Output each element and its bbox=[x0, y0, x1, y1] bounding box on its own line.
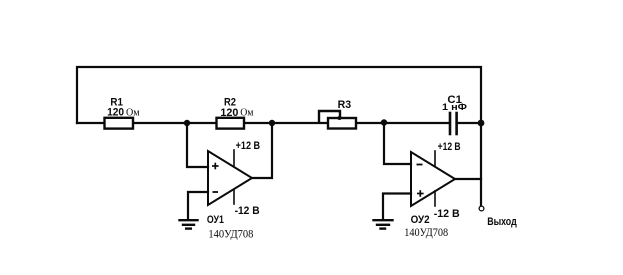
output terminal circle bbox=[479, 206, 484, 211]
U1 plus sign bbox=[212, 163, 219, 170]
wire top feedback bbox=[77, 67, 481, 123]
resistor R1 bbox=[105, 118, 134, 129]
R3 wiper dot bbox=[338, 116, 342, 120]
potentiometer R3 bbox=[328, 118, 356, 129]
U1 minus sign bbox=[213, 191, 219, 193]
node D junction dot bbox=[478, 120, 485, 127]
wire U2 output bbox=[455, 178, 481, 180]
svg-text:-12 В: -12 В bbox=[434, 208, 460, 220]
U2 plus sign bbox=[417, 190, 424, 197]
wire output down to terminal bbox=[480, 123, 482, 206]
svg-text:-12 В: -12 В bbox=[235, 205, 260, 217]
capacitor C1 bbox=[450, 113, 457, 134]
svg-text:R3: R3 bbox=[338, 99, 352, 111]
wire U1 +input from node A bbox=[187, 123, 208, 167]
wire R3 wiper bypass bbox=[319, 111, 340, 122]
node A junction dot bbox=[184, 120, 190, 126]
wire U1 output up to node B bbox=[252, 123, 272, 178]
wire U1 -input to ground bbox=[188, 192, 208, 219]
op-amp U1 triangle bbox=[208, 151, 252, 205]
wire C1 to right vertical bbox=[458, 122, 481, 124]
ground GND2 bbox=[374, 220, 393, 228]
svg-text:ОУ1: ОУ1 bbox=[207, 214, 224, 226]
wire bus left to R1 bbox=[77, 122, 104, 124]
svg-text:120: 120 bbox=[220, 107, 238, 119]
svg-text:+12 В: +12 В bbox=[236, 140, 261, 152]
wire U2 +input to ground bbox=[383, 194, 411, 220]
resistor R2 bbox=[217, 118, 245, 129]
wire U1 -12V stub bbox=[233, 190, 235, 204]
ground GND1 bbox=[180, 220, 198, 228]
svg-text:+12 В: +12 В bbox=[438, 141, 461, 153]
svg-text:Выход: Выход bbox=[487, 216, 517, 228]
svg-text:Ом: Ом bbox=[126, 107, 140, 118]
U2 minus sign bbox=[417, 164, 423, 166]
wire U1 +12V stub bbox=[233, 150, 235, 166]
wire U2 -12V stub bbox=[434, 191, 436, 206]
wire U2 +12V stub bbox=[434, 151, 436, 166]
wire R1 to R2 bbox=[133, 122, 216, 124]
svg-text:120: 120 bbox=[107, 107, 124, 119]
svg-text:140УД708: 140УД708 bbox=[208, 226, 253, 240]
node C junction dot bbox=[381, 119, 387, 125]
wire R2 to R3 bbox=[244, 122, 328, 124]
svg-text:140УД708: 140УД708 bbox=[404, 225, 448, 239]
node B junction dot bbox=[269, 120, 275, 126]
wire R3 to C1 bbox=[356, 122, 449, 124]
svg-text:Ом: Ом bbox=[240, 108, 254, 119]
wire U2 -input from node C bbox=[384, 123, 411, 164]
svg-text:ОУ2: ОУ2 bbox=[411, 214, 430, 226]
svg-text:1 нФ: 1 нФ bbox=[442, 102, 467, 113]
op-amp U2 triangle bbox=[411, 152, 455, 206]
